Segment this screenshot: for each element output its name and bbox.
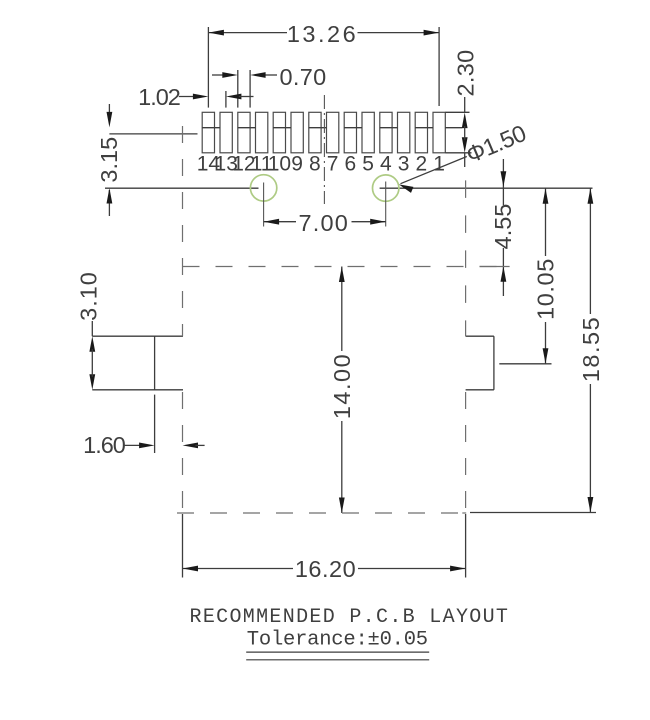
svg-text:7: 7 (327, 153, 339, 176)
svg-text:3: 3 (398, 153, 410, 176)
svg-text:5: 5 (362, 153, 374, 176)
svg-text:9: 9 (291, 153, 303, 176)
svg-text:2: 2 (416, 153, 428, 176)
svg-text:Tolerance:±0.05: Tolerance:±0.05 (247, 628, 428, 651)
svg-text:18.55: 18.55 (578, 316, 604, 382)
svg-text:8: 8 (309, 153, 321, 176)
svg-text:13.26: 13.26 (287, 21, 358, 47)
svg-text:0.70: 0.70 (280, 64, 327, 90)
svg-text:14.00: 14.00 (329, 353, 355, 419)
svg-text:1.02: 1.02 (138, 84, 180, 110)
svg-text:4.55: 4.55 (490, 204, 516, 250)
svg-text:1.60: 1.60 (83, 432, 126, 458)
svg-text:RECOMMENDED P.C.B LAYOUT: RECOMMENDED P.C.B LAYOUT (190, 606, 510, 629)
svg-text:3.15: 3.15 (96, 137, 122, 183)
svg-text:4: 4 (380, 153, 392, 176)
svg-text:3.10: 3.10 (76, 271, 102, 321)
svg-text:1: 1 (433, 153, 445, 176)
svg-text:6: 6 (345, 153, 357, 176)
svg-text:7.00: 7.00 (299, 210, 350, 236)
svg-text:10: 10 (268, 153, 291, 176)
svg-text:16.20: 16.20 (295, 556, 356, 582)
svg-text:2.30: 2.30 (452, 50, 478, 97)
svg-text:10.05: 10.05 (533, 258, 559, 320)
